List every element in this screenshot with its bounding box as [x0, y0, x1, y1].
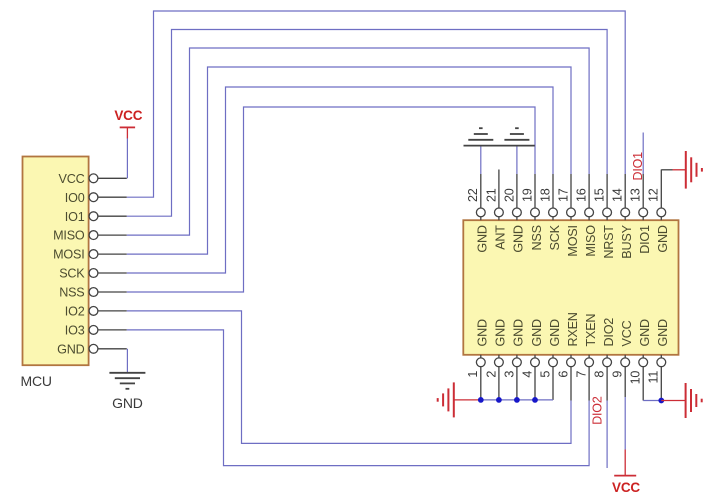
- ground GND symbol bar1: [109, 372, 145, 374]
- module pin 9 (VCC) terminal circle: [621, 358, 630, 367]
- earth symbol above pin20 bar3: [510, 133, 524, 135]
- svg-text:18: 18: [538, 188, 552, 202]
- svg-text:VCC: VCC: [59, 172, 85, 186]
- module pin 4 (GND) lead: [534, 367, 536, 400]
- module pin 22 (GND) stub into body: [480, 217, 482, 220]
- earth symbol above pin20 bar2: [504, 139, 529, 141]
- module pin 11 (GND) terminal circle: [657, 358, 666, 367]
- MCU pin GND terminal circle: [89, 344, 98, 353]
- junction dot pin11: [658, 398, 664, 404]
- svg-text:5: 5: [538, 371, 552, 378]
- MCU pin IO0 terminal circle: [89, 193, 98, 202]
- module pin 2 (GND) lead: [498, 367, 500, 400]
- wire pin12 to ground: [661, 169, 672, 171]
- svg-text:14: 14: [611, 188, 625, 202]
- MCU pin VCC lead: [98, 177, 127, 179]
- svg-text:GND: GND: [512, 319, 526, 346]
- module pin 8 (DIO2) stub into body: [606, 355, 608, 358]
- module pin 4 (GND) terminal circle: [531, 358, 540, 367]
- svg-text:MCU: MCU: [21, 373, 52, 389]
- MCU pin MOSI terminal circle: [89, 250, 98, 259]
- svg-text:NRST: NRST: [602, 225, 616, 259]
- module pin 7 (TXEN) stub into body: [588, 355, 590, 358]
- module pin 14 (BUSY) lead: [624, 174, 626, 208]
- module pin 19 (NSS) lead: [534, 174, 536, 208]
- ground symbol bottom-right bar3: [695, 394, 697, 407]
- svg-text:19: 19: [520, 188, 534, 202]
- svg-text:7: 7: [575, 371, 589, 378]
- module pin 13 (DIO1) lead: [642, 174, 644, 208]
- MCU pin SCK lead: [98, 272, 127, 274]
- module pin 1 (GND) terminal circle: [476, 358, 485, 367]
- earth symbol above pin22 bar3: [474, 133, 488, 135]
- module pin 13 (DIO1) terminal circle: [639, 208, 648, 217]
- module pin 7 (TXEN) lead: [588, 367, 590, 401]
- module pin 16 (MISO) lead: [588, 174, 590, 208]
- ground GND symbol bar3: [120, 382, 135, 384]
- svg-text:IO0: IO0: [65, 191, 85, 205]
- wire SCK to pin18 SCK: [127, 87, 553, 273]
- module pin 6 (RXEN) lead: [570, 367, 572, 401]
- module pin 19 (NSS) stub into body: [534, 217, 536, 220]
- module pin 14 (BUSY) stub into body: [624, 217, 626, 220]
- module pin 20 (GND) terminal circle: [513, 208, 522, 217]
- svg-text:GND: GND: [656, 225, 670, 252]
- wire pin10 to pin11 junction: [643, 400, 661, 402]
- module pin 12 (GND) terminal circle: [657, 208, 666, 217]
- svg-text:DIO2: DIO2: [602, 318, 616, 347]
- module pin 19 (NSS) terminal circle: [531, 208, 540, 217]
- svg-text:VCC: VCC: [114, 108, 142, 123]
- svg-text:22: 22: [466, 188, 480, 202]
- wire pin22 GND up to earth bar: [480, 146, 482, 174]
- ground symbol right of pin12 bar3: [696, 163, 698, 177]
- module pin 1 (GND) lead: [480, 367, 482, 400]
- svg-text:8: 8: [593, 371, 607, 378]
- svg-text:ANT: ANT: [494, 225, 508, 250]
- module pin 13 (DIO1) stub into body: [642, 217, 644, 220]
- power VCC symbol (left) bar: [120, 126, 135, 128]
- svg-text:MISO: MISO: [584, 225, 598, 257]
- MCU pin IO1 terminal circle: [89, 212, 98, 221]
- component radio module (SX126x) body: [463, 220, 678, 355]
- module pin 18 (SCK) lead: [552, 174, 554, 208]
- svg-text:VCC: VCC: [620, 320, 634, 346]
- module pin 1 (GND) stub into body: [480, 355, 482, 358]
- svg-text:GND: GND: [112, 395, 143, 411]
- module pin 5 (GND) terminal circle: [549, 358, 558, 367]
- svg-text:SCK: SCK: [59, 267, 85, 281]
- svg-text:15: 15: [593, 188, 607, 202]
- module pin 21 (ANT) lead: [498, 170, 500, 209]
- wire MOSI to pin17 SCK: [127, 67, 571, 254]
- earth symbol shared bottom bar: [464, 145, 535, 147]
- wire MCU VCC up to VCC symbol: [126, 138, 128, 179]
- module pin 14 (BUSY) terminal circle: [621, 208, 630, 217]
- MCU pin GND lead: [98, 348, 127, 350]
- MCU pin IO3 terminal circle: [89, 326, 98, 335]
- power VCC symbol (bottom) stub: [624, 450, 626, 476]
- power VCC symbol (bottom) bar: [614, 475, 636, 477]
- svg-text:VCC: VCC: [612, 480, 640, 495]
- module pin 6 (RXEN) stub into body: [570, 355, 572, 358]
- svg-text:3: 3: [502, 371, 516, 378]
- module pin 9 (VCC) stub into body: [624, 355, 626, 358]
- wire ground rail pins1-5: [481, 399, 553, 401]
- wire IO1 to pin15 NRST: [127, 30, 607, 217]
- svg-text:4: 4: [520, 371, 534, 378]
- svg-text:GND: GND: [656, 319, 670, 346]
- module pin 5 (GND) stub into body: [552, 355, 554, 358]
- wire IO0 to pin14 BUSY: [127, 11, 625, 197]
- svg-text:12: 12: [647, 188, 661, 202]
- junction dot pin2: [496, 397, 502, 403]
- svg-text:6: 6: [556, 371, 570, 378]
- ground symbol bottom-right bar1: [685, 383, 687, 418]
- svg-text:GND: GND: [57, 342, 84, 356]
- module pin 17 (MOSI) lead: [570, 174, 572, 208]
- svg-text:MOSI: MOSI: [566, 225, 580, 256]
- module pin 10 (GND) terminal circle: [639, 358, 648, 367]
- MCU pin IO2 lead: [98, 310, 127, 312]
- svg-text:DIO2: DIO2: [591, 396, 605, 425]
- MCU pin IO1 lead: [98, 215, 127, 217]
- svg-text:MOSI: MOSI: [53, 248, 84, 262]
- svg-text:MISO: MISO: [53, 229, 85, 243]
- svg-text:9: 9: [611, 371, 625, 378]
- svg-text:DIO1: DIO1: [631, 152, 645, 181]
- junction dot pin1: [478, 397, 484, 403]
- component MCU body: [23, 157, 89, 366]
- MCU pin SCK terminal circle: [89, 269, 98, 278]
- svg-text:DIO1: DIO1: [638, 225, 652, 254]
- ground symbol right of pin12 bar1: [685, 151, 687, 189]
- MCU pin IO3 lead: [98, 329, 127, 331]
- wire ground lead (red): [673, 169, 686, 171]
- ground symbol bottom-right bar4: [701, 399, 703, 403]
- svg-text:NSS: NSS: [59, 286, 84, 300]
- wire IO2 to pin6 RXEN: [127, 311, 571, 444]
- module pin 7 (TXEN) terminal circle: [585, 358, 594, 367]
- module pin 4 (GND) stub into body: [534, 355, 536, 358]
- MCU pin MISO lead: [98, 234, 127, 236]
- wire pin8 DIO2 stub: [606, 401, 608, 469]
- ground GND symbol bar4: [126, 388, 130, 390]
- svg-text:IO1: IO1: [65, 210, 85, 224]
- svg-text:11: 11: [647, 371, 661, 384]
- module pin 3 (GND) lead: [516, 367, 518, 400]
- module pin 8 (DIO2) lead: [606, 367, 608, 401]
- module pin 11 (GND) stub into body: [660, 355, 662, 358]
- wire IO3 to pin7 TXEN: [127, 330, 589, 466]
- module pin 10 (GND) stub into body: [642, 355, 644, 358]
- svg-text:TXEN: TXEN: [584, 314, 598, 347]
- module pin 12 (GND) lead: [660, 170, 662, 209]
- module pin 15 (NRST) stub into body: [606, 217, 608, 220]
- power VCC symbol (left) stub: [126, 127, 128, 138]
- module pin 21 (ANT) terminal circle: [495, 208, 504, 217]
- ground symbol bottom-left bar2: [447, 388, 449, 411]
- module pin 20 (GND) stub into body: [516, 217, 518, 220]
- svg-text:2: 2: [484, 371, 498, 378]
- MCU pin MOSI lead: [98, 253, 127, 255]
- svg-text:SCK: SCK: [548, 224, 562, 250]
- wire MISO to pin16 MISO: [127, 48, 589, 235]
- wire MCU GND down to ground: [126, 349, 128, 373]
- MCU pin NSS terminal circle: [89, 288, 98, 297]
- MCU pin IO0 lead: [98, 196, 127, 198]
- module pin 11 (GND) lead: [660, 367, 662, 401]
- module pin 20 (GND) lead: [516, 174, 518, 208]
- svg-text:GND: GND: [512, 225, 526, 252]
- ground symbol bottom-left bar4: [437, 398, 439, 402]
- svg-text:GND: GND: [530, 319, 544, 346]
- svg-text:21: 21: [484, 188, 498, 202]
- wire pin20 GND up to earth bar: [516, 146, 518, 174]
- svg-text:BUSY: BUSY: [620, 224, 634, 258]
- svg-text:1: 1: [466, 371, 480, 378]
- module pin 18 (SCK) stub into body: [552, 217, 554, 220]
- module pin 8 (DIO2) terminal circle: [603, 358, 612, 367]
- svg-text:GND: GND: [476, 225, 490, 252]
- MCU pin NSS lead: [98, 291, 127, 293]
- ground symbol right of pin12 bar2: [690, 157, 692, 182]
- ground GND symbol bar2: [115, 377, 140, 379]
- module pin 16 (MISO) stub into body: [588, 217, 590, 220]
- svg-text:RXEN: RXEN: [566, 312, 580, 346]
- module pin 17 (MOSI) terminal circle: [567, 208, 576, 217]
- module pin 5 (GND) lead: [552, 367, 554, 400]
- MCU pin MISO terminal circle: [89, 231, 98, 240]
- earth symbol above pin22 bar2: [468, 139, 493, 141]
- svg-text:IO3: IO3: [65, 324, 85, 338]
- svg-text:NSS: NSS: [530, 225, 544, 250]
- ground symbol bottom-left bar1: [453, 382, 455, 417]
- module pin 9 (VCC) lead: [624, 367, 626, 397]
- MCU pin VCC terminal circle: [89, 174, 98, 183]
- ground symbol bottom-right bar2: [690, 389, 692, 412]
- module pin 12 (GND) stub into body: [660, 217, 662, 220]
- junction dot pin3: [514, 397, 520, 403]
- wire NSS to pin19 NSS: [127, 107, 535, 292]
- module pin 22 (GND) terminal circle: [476, 208, 485, 217]
- module pin 3 (GND) stub into body: [516, 355, 518, 358]
- svg-text:13: 13: [629, 188, 643, 202]
- module pin 10 (GND) lead: [642, 367, 644, 401]
- wire pin9 VCC down: [624, 397, 626, 450]
- svg-text:GND: GND: [548, 319, 562, 346]
- svg-text:GND: GND: [476, 319, 490, 346]
- ground symbol bottom-left bar3: [442, 393, 444, 406]
- module pin 15 (NRST) lead: [606, 174, 608, 208]
- module pin 2 (GND) terminal circle: [495, 358, 504, 367]
- svg-text:20: 20: [502, 188, 516, 202]
- MCU pin IO2 terminal circle: [89, 307, 98, 316]
- module pin 3 (GND) terminal circle: [513, 358, 522, 367]
- svg-text:17: 17: [556, 188, 570, 202]
- svg-text:16: 16: [575, 188, 589, 202]
- earth symbol above pin22 bar4: [479, 127, 483, 129]
- module pin 22 (GND) lead: [480, 174, 482, 208]
- module pin 17 (MOSI) stub into body: [570, 217, 572, 220]
- module pin 15 (NRST) terminal circle: [603, 208, 612, 217]
- svg-text:IO2: IO2: [65, 305, 85, 319]
- module pin 16 (MISO) terminal circle: [585, 208, 594, 217]
- wire ground lead bottom-left (red): [454, 399, 481, 401]
- wire ground lead bottom-right (red): [661, 400, 685, 402]
- earth symbol above pin20 bar4: [515, 127, 519, 129]
- svg-text:10: 10: [629, 371, 643, 385]
- module pin 6 (RXEN) terminal circle: [567, 358, 576, 367]
- wire pin13 DIO1 stub: [642, 133, 644, 175]
- module pin 2 (GND) stub into body: [498, 355, 500, 358]
- svg-text:GND: GND: [638, 319, 652, 346]
- ground symbol right of pin12 bar4: [701, 168, 703, 172]
- junction dot pin4: [532, 397, 538, 403]
- svg-text:GND: GND: [494, 319, 508, 346]
- module pin 18 (SCK) terminal circle: [549, 208, 558, 217]
- module pin 21 (ANT) stub into body: [498, 217, 500, 220]
